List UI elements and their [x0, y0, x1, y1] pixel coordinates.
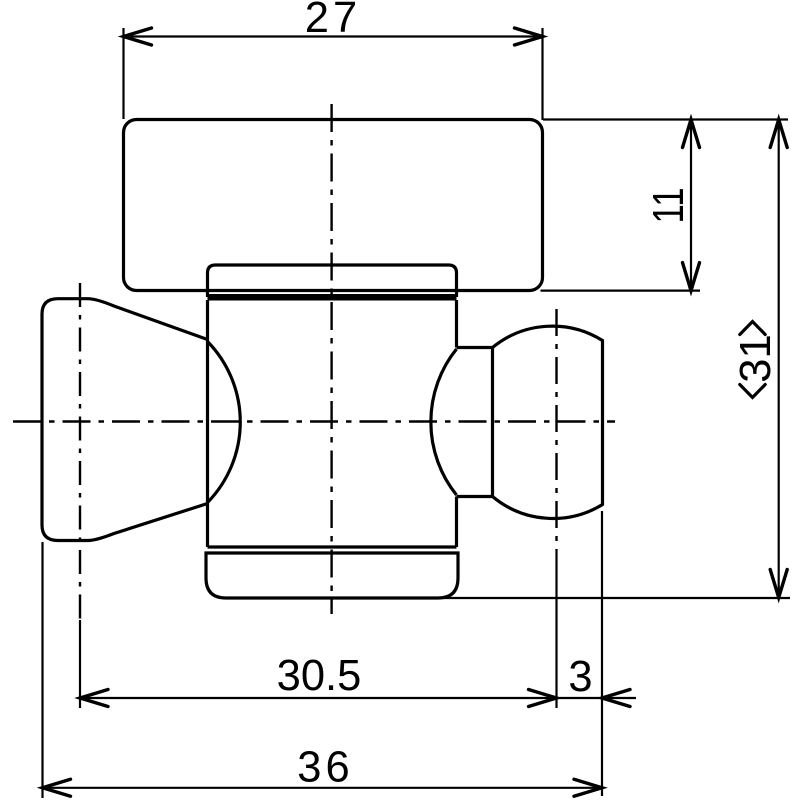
svg-text:31: 31 — [732, 334, 780, 382]
svg-text:27: 27 — [305, 0, 361, 42]
svg-text:36: 36 — [297, 744, 353, 792]
svg-text:3: 3 — [568, 653, 592, 701]
svg-text:11: 11 — [644, 187, 693, 223]
svg-text:30.5: 30.5 — [277, 652, 362, 700]
